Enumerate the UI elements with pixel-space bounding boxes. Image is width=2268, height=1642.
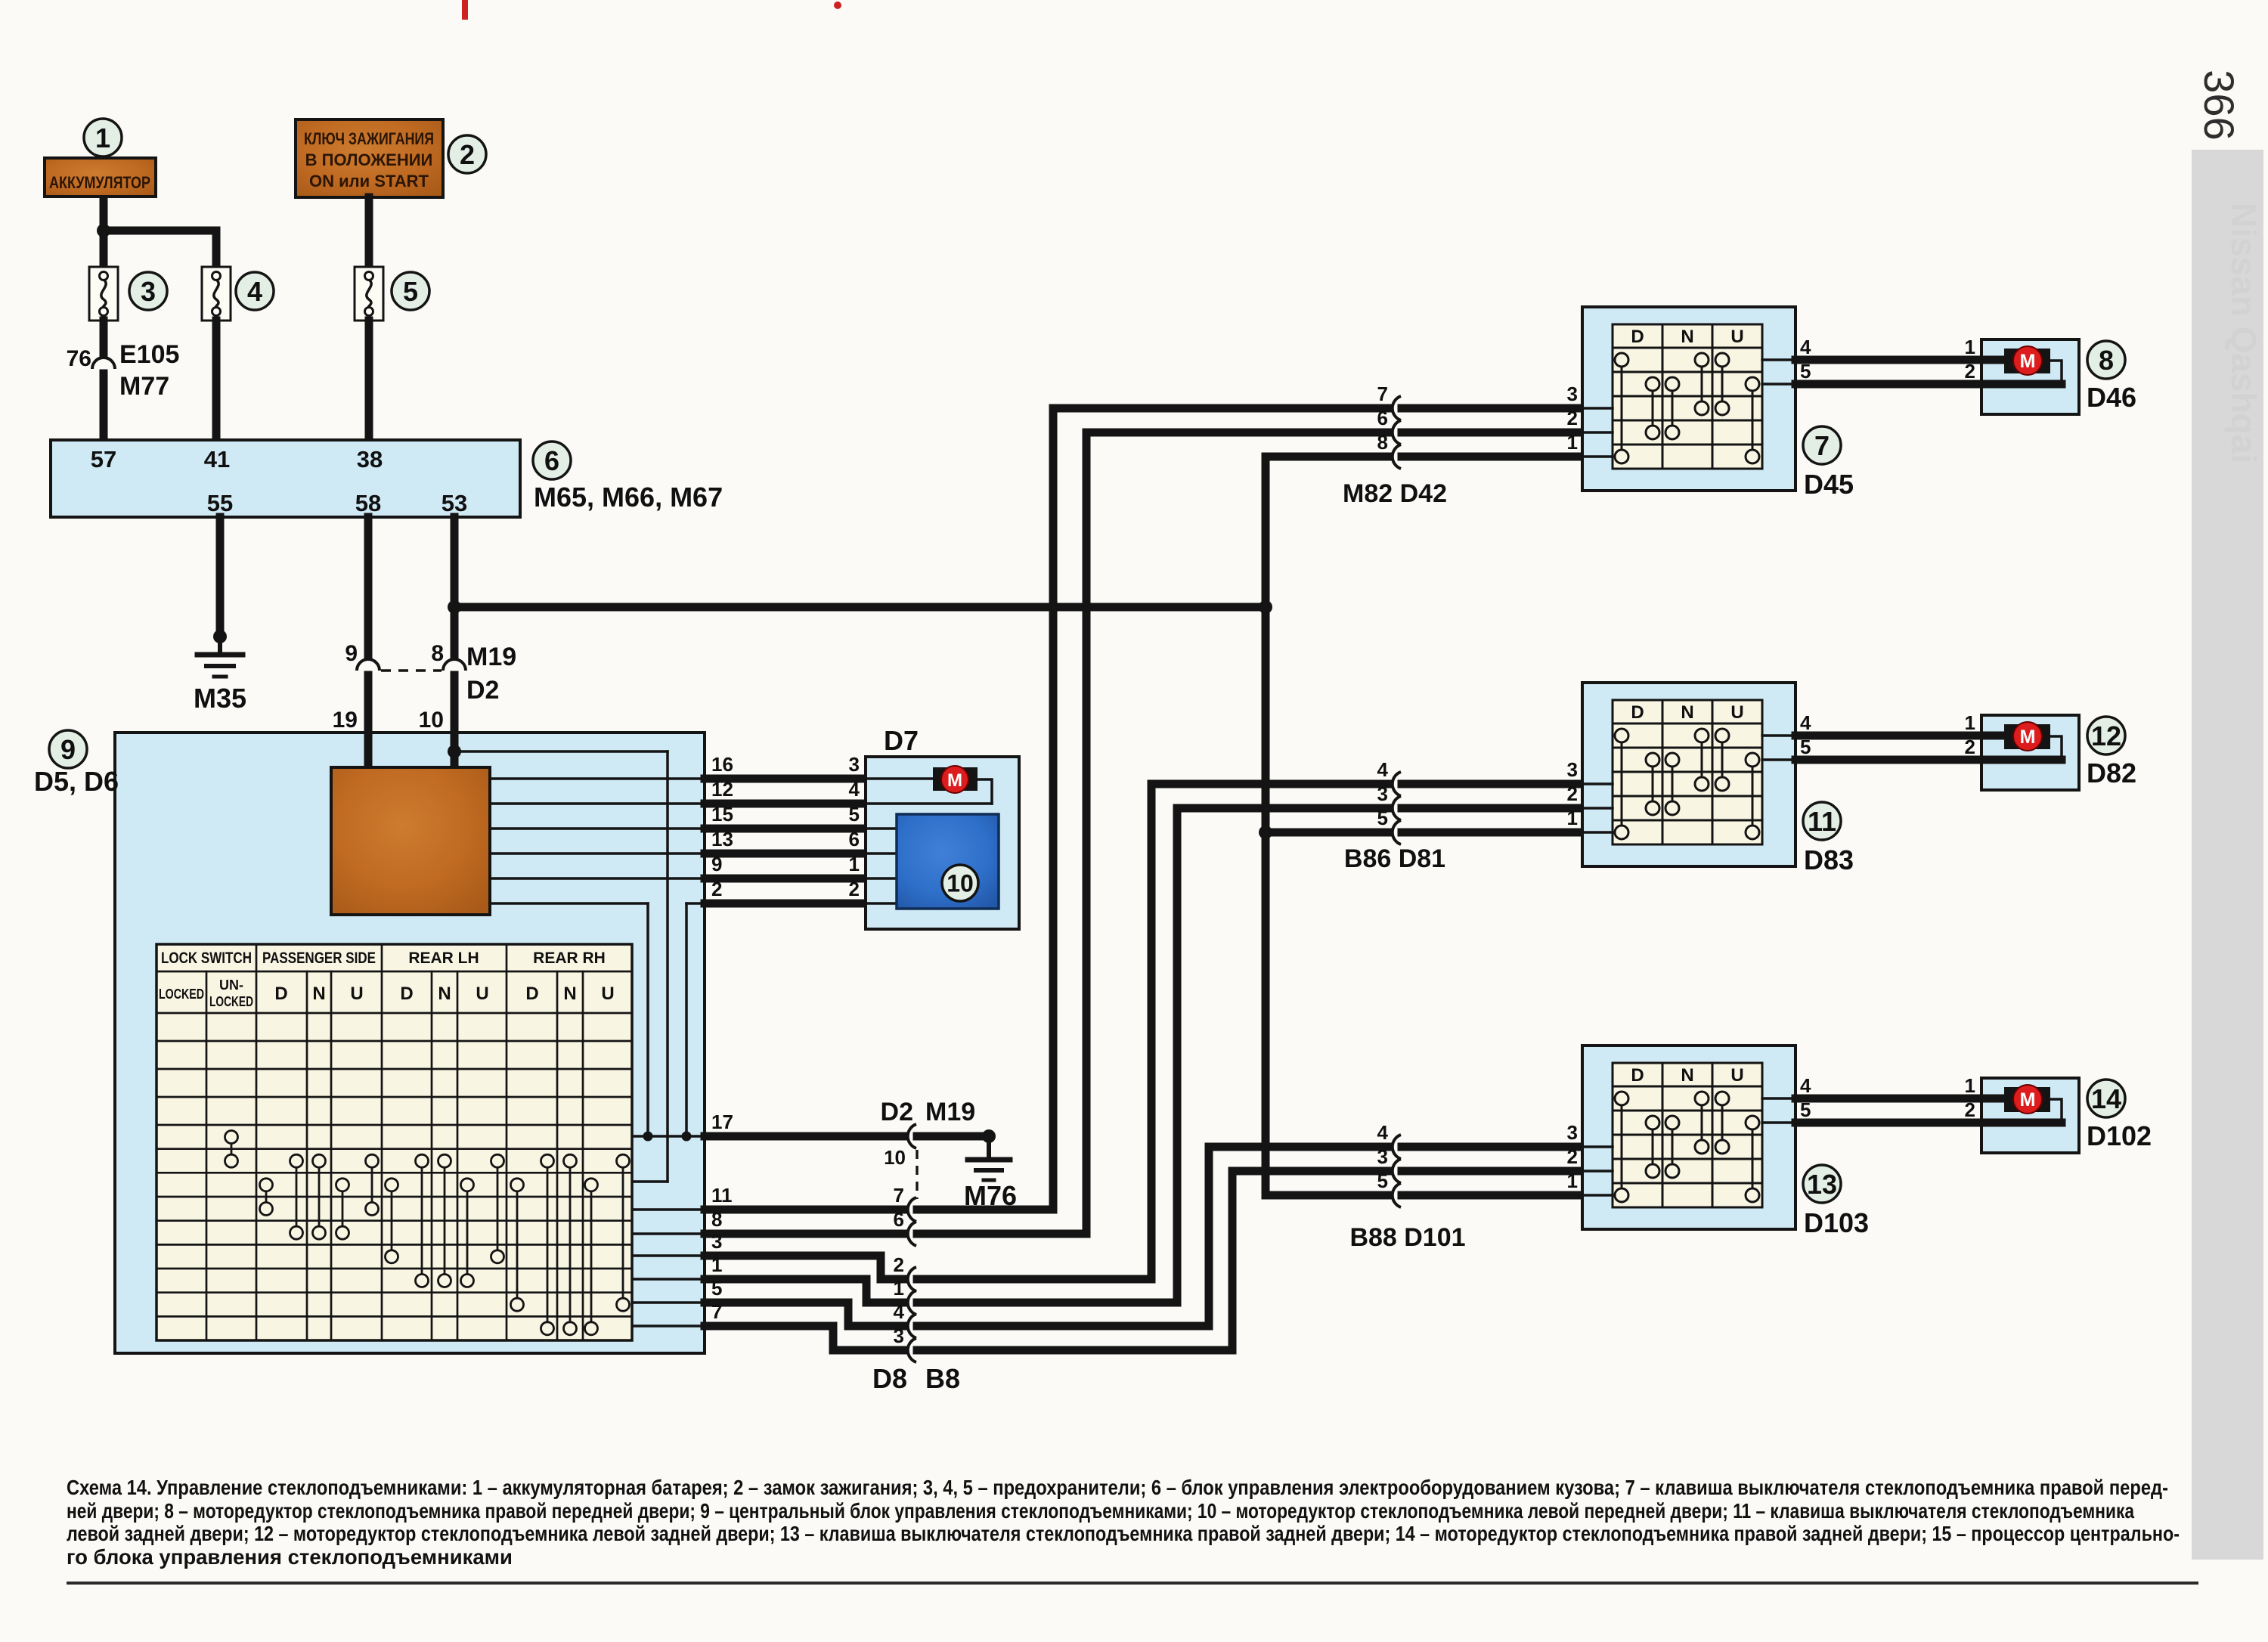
svg-text:6: 6	[1377, 407, 1388, 429]
D7 internal line pin1	[866, 877, 897, 880]
switch table box	[156, 944, 632, 1340]
D7 internal line pin3	[866, 777, 933, 780]
component 15 processor orange square	[331, 767, 490, 915]
svg-text:M: M	[2020, 727, 2036, 748]
svg-text:D: D	[1631, 1065, 1644, 1086]
connector B86-D81 arc 4	[1393, 772, 1401, 796]
wire block9 pin 12 to D7 pin 4	[705, 800, 866, 808]
wire fuse4 to block6 pin41	[212, 321, 221, 441]
table row line 7	[156, 1196, 632, 1198]
svg-text:9: 9	[60, 734, 76, 765]
wire fuse5 to block6 pin38	[365, 321, 373, 441]
svg-text:3: 3	[1377, 782, 1388, 805]
wire pin55 to ground	[216, 517, 225, 637]
table row line 1	[156, 1040, 632, 1043]
svg-text:2: 2	[849, 878, 860, 900]
svg-text:M: M	[2020, 1089, 2036, 1111]
table column divider x273	[206, 971, 208, 1340]
svg-text:1: 1	[1567, 431, 1578, 454]
svg-text:1: 1	[1965, 1074, 1975, 1097]
svg-text:N: N	[563, 984, 576, 1004]
table row line 11	[156, 1291, 632, 1293]
processor line 6 right part	[686, 902, 705, 905]
table contact pair 16	[622, 1161, 624, 1305]
svg-text:9: 9	[711, 853, 722, 875]
svg-text:41: 41	[204, 446, 230, 472]
svg-text:D7: D7	[884, 725, 919, 756]
svg-text:LOCKED: LOCKED	[209, 994, 253, 1009]
svg-text:1: 1	[95, 122, 110, 153]
svg-text:8: 8	[431, 641, 444, 666]
wire M82-D42 pin 6 to 2	[1086, 429, 1388, 437]
svg-text:N: N	[1681, 702, 1693, 723]
internal node dot a	[643, 1132, 653, 1142]
svg-text:15: 15	[711, 803, 733, 826]
D7 internal line pin4	[866, 802, 992, 805]
connector D2-M19 arc 6	[908, 1222, 916, 1246]
wire conn7 to riser	[917, 408, 1053, 1210]
component 11 switch D83	[1582, 683, 1795, 866]
D7 internal line pin6	[866, 852, 897, 855]
svg-text:4: 4	[1800, 336, 1811, 358]
connector B88-D101 arc 5	[1393, 1183, 1401, 1207]
svg-text:5: 5	[403, 276, 418, 307]
table subheader row line	[156, 1012, 632, 1015]
svg-text:3: 3	[849, 753, 860, 776]
table section divider x505	[381, 944, 383, 1340]
connector D8-B8 arc 3	[908, 1338, 916, 1362]
svg-text:левой задней двери; 12 – мотор: левой задней двери; 12 – моторедуктор ст…	[67, 1522, 2180, 1545]
block9 inner line y1661	[632, 1254, 705, 1257]
wire fuse3 to E105	[100, 321, 108, 354]
wire conn 1 to riser	[917, 808, 1177, 1303]
motor mount block	[933, 767, 978, 791]
svg-text:D102: D102	[2087, 1120, 2152, 1151]
table column divider x406	[306, 971, 308, 1340]
svg-text:16: 16	[711, 753, 733, 776]
ground M35 bar2	[206, 664, 234, 668]
supply bus wire	[454, 603, 1266, 612]
svg-text:6: 6	[849, 828, 860, 850]
ground M76 bar3	[984, 1179, 994, 1182]
svg-text:4: 4	[1800, 1074, 1811, 1097]
connector dashed boundary vertical	[916, 1150, 918, 1199]
svg-text:2: 2	[894, 1253, 904, 1276]
svg-text:3: 3	[1567, 383, 1578, 405]
svg-text:8: 8	[1377, 431, 1388, 454]
svg-text:U: U	[601, 984, 614, 1004]
svg-text:КЛЮЧ ЗАЖИГАНИЯ: КЛЮЧ ЗАЖИГАНИЯ	[304, 129, 434, 148]
wire D2-10 to block9	[451, 675, 459, 736]
wire block9 pin11	[705, 1206, 903, 1214]
svg-text:7: 7	[711, 1300, 722, 1323]
svg-text:5: 5	[849, 803, 860, 826]
wire block9 pin 7 step	[705, 1326, 903, 1350]
D7 internal line pin2	[866, 902, 897, 905]
connector M19 pin8 dome	[443, 659, 466, 671]
svg-text:7: 7	[1377, 383, 1388, 405]
badge 5	[392, 272, 429, 310]
table contact pair 1	[231, 1137, 233, 1161]
svg-text:38: 38	[357, 446, 383, 472]
table contact pair 3	[296, 1161, 298, 1233]
component 6 body control block	[51, 440, 520, 517]
badge 9	[49, 730, 87, 768]
table column divider x571	[431, 971, 433, 1340]
svg-text:6: 6	[544, 445, 559, 476]
table contact pair 12	[516, 1185, 519, 1304]
svg-text:4: 4	[1377, 1121, 1389, 1144]
svg-text:12: 12	[2091, 720, 2121, 751]
table row line 8	[156, 1219, 632, 1222]
junction dot pin53 bus	[448, 600, 461, 614]
svg-text:D46: D46	[2087, 382, 2136, 413]
svg-text:M65, M66, M67: M65, M66, M67	[534, 482, 723, 513]
table contact pair 9	[444, 1161, 446, 1281]
connector M82-D42 arc 6	[1393, 420, 1401, 445]
badge 2	[448, 135, 486, 173]
junction dot battery split	[97, 224, 110, 237]
processor output line 6 left part	[490, 902, 648, 905]
branch line from wire10 junction	[454, 750, 668, 753]
table contact pair 6	[371, 1161, 373, 1209]
svg-text:U: U	[1730, 1065, 1743, 1086]
svg-text:8: 8	[2099, 345, 2114, 376]
wire conn 3 to riser	[917, 1171, 1232, 1350]
table column divider x771	[582, 971, 584, 1340]
table row line 10	[156, 1268, 632, 1270]
wire conn 4 to riser	[917, 1147, 1209, 1326]
wire M82-D42 pin 7 to 3	[1053, 404, 1388, 413]
table row line 2	[156, 1068, 632, 1070]
svg-text:7: 7	[894, 1184, 904, 1207]
table row line 3	[156, 1096, 632, 1098]
processor output line 4	[490, 852, 705, 855]
table contact pair 8	[421, 1161, 423, 1281]
svg-text:2: 2	[1965, 360, 1975, 383]
svg-text:UN-: UN-	[219, 977, 243, 993]
svg-text:REAR LH: REAR LH	[408, 950, 479, 967]
grey sidebar band	[2192, 150, 2263, 1560]
connector M19 pin9 dome	[357, 659, 380, 671]
wire B88-D101 pin 3 to 2	[1232, 1167, 1388, 1176]
processor output line 5	[490, 877, 705, 880]
connector B88-D101 arc 4	[1393, 1135, 1401, 1159]
wire 10 inside block9	[451, 733, 459, 769]
junction dot wire10 branch	[448, 745, 461, 758]
svg-text:13: 13	[1807, 1169, 1837, 1200]
component D7 door module box	[866, 757, 1019, 929]
wire pin58 to connector M19-9	[364, 517, 373, 655]
connector B86-D81 arc 3	[1393, 796, 1401, 820]
svg-text:11: 11	[711, 1184, 733, 1207]
badge 3	[129, 272, 167, 310]
processor output line 1	[490, 777, 705, 780]
table contact pair 14	[569, 1161, 572, 1329]
svg-text:M82 D42: M82 D42	[1343, 479, 1447, 508]
wire block9 pin 5 step	[705, 1303, 903, 1326]
svg-text:1: 1	[1567, 1170, 1578, 1192]
wire D2-19 to block9	[364, 675, 373, 736]
badge 6	[533, 441, 571, 479]
svg-text:B8: B8	[925, 1363, 960, 1394]
ground M76 stem	[987, 1136, 991, 1158]
svg-text:8: 8	[711, 1208, 722, 1231]
table contact pair 15	[590, 1185, 593, 1328]
svg-text:PASSENGER SIDE: PASSENGER SIDE	[262, 950, 376, 967]
wire B86-D81 pin 3 to 2	[1177, 804, 1388, 813]
connector D8-B8 arc 4	[908, 1314, 916, 1338]
component 10 motor unit blue square	[897, 814, 999, 909]
table section divider x339	[256, 944, 258, 1340]
table contact pair 4	[318, 1161, 321, 1233]
wire B86-D81 pin 4 to 3	[1151, 780, 1388, 788]
svg-text:1: 1	[711, 1253, 722, 1276]
table section divider x670	[506, 944, 508, 1340]
svg-text:В ПОЛОЖЕНИИ: В ПОЛОЖЕНИИ	[305, 150, 433, 169]
svg-text:2: 2	[460, 139, 475, 170]
svg-text:LOCK SWITCH: LOCK SWITCH	[161, 950, 252, 967]
svg-text:M19: M19	[925, 1098, 975, 1126]
svg-text:D: D	[525, 984, 538, 1004]
svg-text:D2: D2	[466, 676, 499, 705]
processor output line 2	[490, 802, 705, 805]
svg-text:D: D	[400, 984, 413, 1004]
svg-text:ON или START: ON или START	[309, 172, 429, 191]
svg-text:10: 10	[947, 870, 974, 897]
svg-text:53: 53	[442, 490, 467, 516]
block9 inner line y1723	[632, 1301, 705, 1304]
block9 inner line y1632	[632, 1232, 705, 1235]
wire block9 pin 16 to D7 pin 3	[705, 775, 866, 783]
wire block9 pin 3 step	[705, 1256, 903, 1279]
svg-text:M: M	[2020, 351, 2036, 372]
svg-text:10: 10	[419, 708, 444, 733]
ground M76 bar1	[968, 1157, 1010, 1163]
component 1 battery box	[45, 158, 156, 197]
svg-text:7: 7	[1814, 430, 1830, 461]
wire block9 pin 9 to D7 pin 1	[705, 875, 866, 883]
svg-text:U: U	[350, 984, 363, 1004]
wire block9 pin 15 to D7 pin 5	[705, 825, 866, 833]
svg-text:4: 4	[894, 1300, 905, 1323]
wire block9 pin 13 to D7 pin 6	[705, 850, 866, 858]
svg-text:B88 D101: B88 D101	[1349, 1223, 1465, 1252]
svg-text:2: 2	[1567, 1145, 1578, 1168]
svg-text:U: U	[476, 984, 488, 1004]
svg-text:4: 4	[1800, 711, 1811, 734]
svg-text:2: 2	[1965, 1098, 1975, 1121]
svg-text:ней двери; 8 – моторедуктор ст: ней двери; 8 – моторедуктор стеклоподъем…	[67, 1499, 2135, 1523]
table contact pair 11	[497, 1161, 499, 1257]
svg-text:2: 2	[1567, 407, 1578, 429]
wire 17 to connector	[705, 1132, 903, 1141]
table contact pair 10	[466, 1185, 469, 1281]
svg-text:N: N	[438, 984, 451, 1004]
svg-text:M77: M77	[119, 372, 169, 401]
svg-text:3: 3	[894, 1324, 904, 1347]
wire branch to fuse 4	[104, 231, 216, 269]
component 14 motor D102	[1981, 1078, 2079, 1153]
ground M35 dot	[213, 630, 227, 643]
svg-text:14: 14	[2091, 1083, 2121, 1114]
connector M82-D42 arc 8	[1393, 445, 1401, 469]
component 12 motor D82	[1981, 715, 2079, 790]
svg-text:76: 76	[67, 346, 91, 371]
svg-text:10: 10	[884, 1146, 906, 1169]
svg-text:D: D	[274, 984, 287, 1004]
svg-text:11: 11	[1808, 806, 1836, 837]
junction dot riser B86-5	[1259, 826, 1272, 839]
svg-text:4: 4	[1377, 758, 1389, 781]
junction dot ground M76	[982, 1129, 996, 1143]
internal line 17 to table	[632, 1135, 705, 1138]
table row line 12	[156, 1315, 632, 1318]
svg-text:Схема 14. Управление стеклопод: Схема 14. Управление стеклоподъемниками:…	[67, 1476, 2168, 1499]
svg-text:D2: D2	[881, 1098, 913, 1126]
fuse 4	[202, 267, 231, 321]
svg-text:U: U	[1730, 702, 1743, 723]
svg-text:N: N	[1681, 327, 1693, 347]
connector D8-B8 arc 2	[908, 1267, 916, 1291]
ground M35 bar3	[214, 675, 226, 679]
connector D2-M19 arc 17	[908, 1124, 916, 1148]
svg-text:17: 17	[711, 1111, 733, 1133]
table row line 9	[156, 1244, 632, 1246]
svg-text:D83: D83	[1804, 844, 1854, 875]
internal branch to table	[632, 1180, 668, 1183]
wire 17 to ground	[917, 1132, 989, 1141]
svg-text:M19: M19	[466, 643, 516, 671]
svg-text:E105: E105	[119, 340, 179, 369]
motor 10 red circle	[941, 766, 968, 793]
table contact pair 7	[391, 1185, 393, 1256]
svg-text:1: 1	[894, 1277, 904, 1300]
svg-text:D103: D103	[1804, 1207, 1869, 1238]
svg-text:LOCKED: LOCKED	[159, 987, 204, 1002]
svg-text:3: 3	[1377, 1145, 1388, 1168]
wire B88-D101 pin 5 to 1	[1266, 1191, 1388, 1200]
svg-text:REAR RH: REAR RH	[533, 950, 606, 967]
svg-text:D: D	[1631, 327, 1644, 347]
component 8 motor D46	[1981, 339, 2079, 414]
main riser wire	[1262, 457, 1270, 1195]
badge 1	[84, 119, 122, 156]
svg-text:6: 6	[894, 1208, 904, 1231]
svg-text:12: 12	[711, 778, 733, 801]
svg-text:D82: D82	[2087, 757, 2136, 788]
wire B88-D101 pin 4 to 3	[1209, 1143, 1388, 1151]
wire conn6 to riser	[917, 432, 1086, 1234]
red registration tick	[462, 0, 468, 20]
fuse 3	[89, 267, 118, 321]
table contact pair 5	[342, 1185, 344, 1232]
wire block9 pin 2 to D7 pin 2	[705, 900, 866, 908]
connector E105 dome	[92, 358, 115, 369]
svg-text:5: 5	[711, 1277, 722, 1300]
svg-text:3: 3	[1567, 758, 1578, 781]
wire conn 2 to riser	[917, 784, 1151, 1279]
wire block9 pin 1 step	[705, 1279, 903, 1303]
D7 motor loop line	[978, 779, 992, 804]
svg-text:5: 5	[1377, 807, 1388, 829]
svg-text:N: N	[312, 984, 325, 1004]
wire pin53 to connector M19-8	[451, 517, 459, 655]
wire B86-D81 pin 5 to 1	[1266, 829, 1388, 837]
red registration dot	[834, 2, 841, 9]
internal riser b	[666, 751, 669, 1182]
svg-text:D5, D6: D5, D6	[34, 766, 119, 797]
connector M19-D2 dashed boundary	[381, 669, 442, 672]
svg-text:13: 13	[711, 828, 733, 850]
block9 inner line y1600	[632, 1208, 705, 1211]
wire M82-D42 pin 8 to 1	[1266, 453, 1388, 461]
svg-text:2: 2	[711, 878, 722, 900]
connector B86-D81 arc 5	[1393, 820, 1401, 844]
svg-text:4: 4	[849, 778, 860, 801]
svg-text:1: 1	[1567, 807, 1578, 829]
table column divider x438	[330, 971, 333, 1340]
component 7 switch D45	[1582, 307, 1795, 491]
ground M35 bar1	[197, 652, 243, 658]
block9 inner line y1754	[632, 1324, 705, 1328]
svg-text:9: 9	[345, 641, 358, 666]
svg-text:Nissan Qashqai: Nissan Qashqai	[2224, 203, 2263, 463]
svg-text:АККУМУЛЯТОР: АККУМУЛЯТОР	[49, 173, 150, 192]
svg-text:N: N	[1681, 1065, 1693, 1086]
svg-text:55: 55	[207, 490, 233, 516]
svg-text:4: 4	[247, 276, 262, 307]
svg-text:5: 5	[1377, 1170, 1388, 1192]
svg-text:B86 D81: B86 D81	[1344, 844, 1445, 873]
svg-text:M: M	[947, 770, 962, 791]
block9 inner line y1692	[632, 1278, 705, 1281]
table contact pair 13	[547, 1161, 549, 1329]
badge 4	[236, 272, 274, 310]
svg-text:1: 1	[849, 853, 860, 875]
table header row line	[156, 971, 632, 973]
battery B+ wire	[100, 195, 108, 269]
ignition feed wire	[365, 197, 373, 269]
wire E105 to block6 pin57	[100, 373, 108, 441]
internal riser a	[646, 903, 649, 1136]
component 2 ignition key box	[296, 119, 443, 197]
table row line 5	[156, 1148, 632, 1150]
svg-text:3: 3	[141, 276, 156, 307]
svg-text:M35: M35	[194, 683, 246, 714]
svg-text:D: D	[1631, 702, 1644, 723]
component 13 switch D103	[1582, 1046, 1795, 1229]
svg-text:57: 57	[91, 446, 116, 472]
bottom rule	[67, 1582, 2198, 1585]
svg-text:366: 366	[2195, 70, 2243, 140]
svg-text:D8: D8	[872, 1363, 907, 1394]
D7 internal line pin5	[866, 827, 897, 830]
svg-text:1: 1	[1965, 336, 1975, 358]
svg-text:19: 19	[333, 708, 358, 733]
internal node dot c	[682, 1132, 692, 1142]
table row line 6	[156, 1172, 632, 1174]
connector D8-B8 arc 1	[908, 1290, 916, 1315]
connector D2-M19 arc 7	[908, 1197, 916, 1222]
internal riser c	[685, 903, 688, 1136]
svg-text:1: 1	[1965, 711, 1975, 734]
svg-text:58: 58	[355, 490, 381, 516]
component 9 central power-window control block	[115, 733, 705, 1353]
processor output line 3	[490, 827, 705, 830]
svg-text:U: U	[1730, 327, 1743, 347]
svg-text:3: 3	[1567, 1121, 1578, 1144]
